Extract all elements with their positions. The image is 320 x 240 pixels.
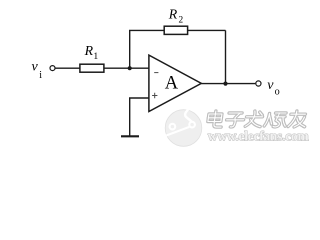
output terminal vo [256,81,261,86]
wire output [201,83,255,85]
svg-text:i: i [39,70,42,81]
ground bar [121,135,139,137]
op-amp plus sign [152,93,157,98]
op-amp A triangle [149,55,201,111]
svg-text:R: R [84,43,94,58]
svg-text:v: v [32,59,39,74]
svg-text:A: A [165,74,179,94]
svg-text:1: 1 [93,51,98,62]
op-amp minus sign [154,72,158,74]
wire feedback left vertical [129,30,131,68]
wire R1 to op-amp minus input [104,67,149,69]
wire feedback top left segment [129,29,164,31]
wire feedback top right segment [188,29,226,31]
node junction after R1 [128,66,132,70]
svg-text:o: o [275,87,280,98]
resistor R1 [80,64,104,72]
svg-text:2: 2 [179,16,184,26]
wire feedback right vertical [225,30,227,83]
svg-text:www.elecfans.com: www.elecfans.com [208,129,309,144]
input terminal vi [50,66,55,71]
svg-text:R: R [168,6,178,21]
wire input to R1 [56,67,81,69]
watermark logo [165,107,202,146]
svg-text:v: v [267,78,274,93]
resistor R2 [164,26,187,34]
wire plus input to ground [130,98,149,136]
node output junction [223,82,227,86]
